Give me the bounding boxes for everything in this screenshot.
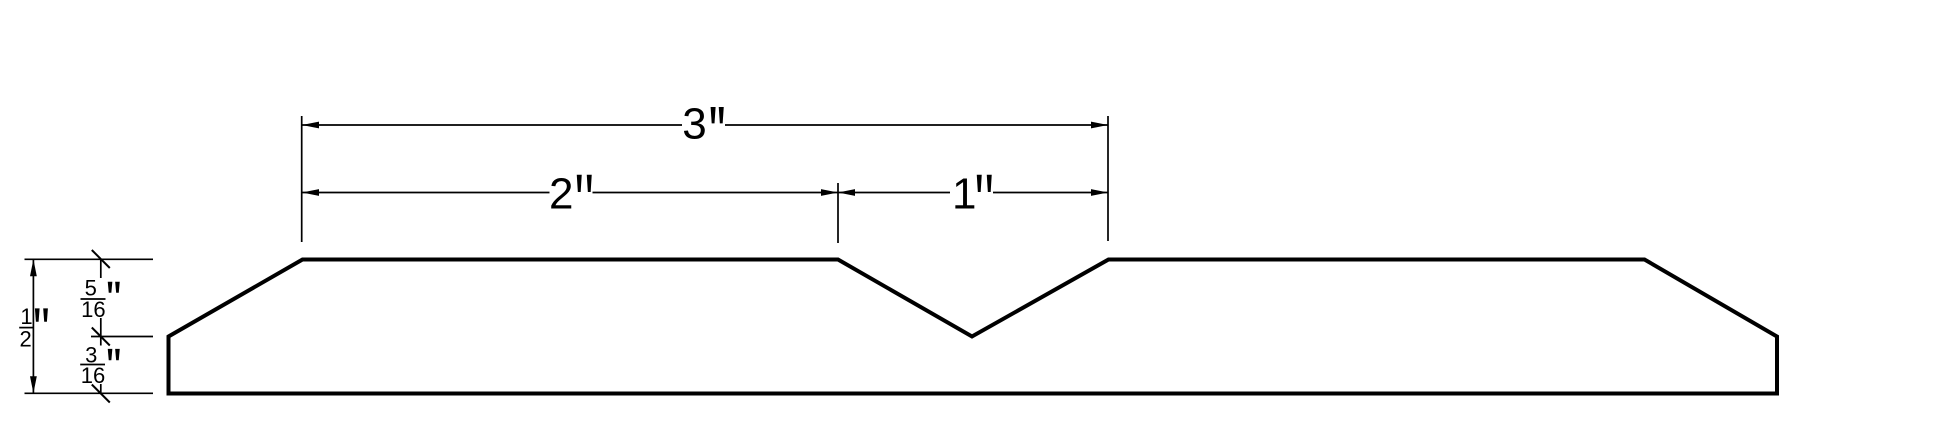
label 1/2: fraction bar	[19, 327, 33, 329]
inch marks for 3/16 inch	[108, 349, 113, 360]
svg-text:1: 1	[20, 304, 32, 329]
tick mark at middle (y=336.5)	[92, 328, 110, 346]
tick mark at bottom (y=393.5)	[92, 385, 110, 403]
dimension line 1 inch (left segment)	[838, 192, 950, 194]
arrowhead 2 inch left	[302, 189, 319, 196]
label 3/16: fraction bar	[80, 364, 105, 366]
profile outline of board cross-section	[169, 260, 1778, 394]
dimension line 1/2 inch vertical	[32, 259, 34, 393]
arrowhead 1/2 inch bottom	[30, 376, 37, 393]
arrowhead 3 inch left	[302, 122, 319, 129]
shared dimension line for 5/16 and 3/16 (x=100.8)	[100, 259, 102, 394]
dimension line 3 inch (right segment)	[725, 124, 1108, 126]
dimension line 3 inch (left segment)	[302, 124, 682, 126]
inch marks for 5/16 inch	[108, 282, 113, 293]
svg-text:2: 2	[19, 327, 31, 352]
white mask behind 5/16 label	[78, 278, 107, 318]
inch marks for 1 inch	[977, 175, 982, 192]
arrowhead 1/2 inch top	[30, 259, 37, 276]
tick mark at top (y=259)	[92, 250, 110, 268]
label 5/16: fraction bar	[81, 298, 106, 300]
svg-text:3: 3	[682, 100, 706, 149]
svg-text:16: 16	[81, 363, 105, 388]
extension line left bottom (y=393.5)	[25, 392, 154, 394]
extension line top-left (for 3-inch and 2-inch dims, x=301.7)	[301, 116, 303, 242]
white mask behind 3/16 label	[78, 346, 107, 385]
inch marks for 1/2 inch	[35, 308, 40, 321]
arrowhead 2 inch right	[821, 189, 838, 196]
arrowhead 1 inch right	[1091, 189, 1108, 196]
svg-text:16: 16	[81, 297, 105, 322]
extension line middle (for 2-inch / 1-inch dims, x=838)	[837, 183, 839, 243]
svg-text:1: 1	[952, 170, 976, 219]
inch marks for 2 inch	[577, 175, 582, 192]
dimension line 2 inch (right segment)	[593, 192, 839, 194]
arrowhead 1 inch left	[838, 189, 855, 196]
extension line left top (y=259)	[25, 258, 154, 260]
dimension line 2 inch (left segment)	[302, 192, 550, 194]
arrowhead 3 inch right	[1091, 122, 1108, 129]
inch marks for 3 inch	[711, 107, 716, 123]
extension line top-right (for 3-inch and 1-inch dims, x=1108)	[1107, 116, 1109, 241]
svg-text:2: 2	[549, 170, 573, 219]
extension line left middle (y=336.5)	[91, 336, 153, 338]
dimension line 1 inch (right segment)	[993, 192, 1108, 194]
